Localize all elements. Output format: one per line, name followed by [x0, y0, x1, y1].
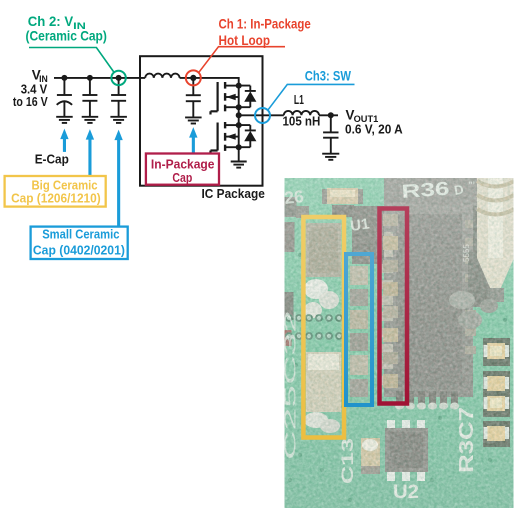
photo dark region behind U1	[352, 206, 384, 264]
photo scattered via dots	[288, 253, 507, 502]
label VIN	[13, 68, 48, 110]
svg-text:Hot Loop: Hot Loop	[219, 33, 271, 48]
photo via pad rows	[286, 315, 342, 339]
arrow to C3 (small ceramic pointer)	[114, 130, 122, 227]
ground of C2	[82, 117, 99, 123]
photo U2 chip	[385, 420, 428, 481]
photo big cap 2 (inside yellow)	[306, 352, 341, 412]
highlight rect dark red (in-package caps on PCB)	[380, 209, 408, 404]
wire SW out of package to L1	[239, 114, 284, 116]
ground of C5	[322, 154, 339, 160]
ground of C1	[56, 117, 72, 123]
photo IC right pads	[465, 220, 476, 354]
Q1 body arrow	[226, 94, 236, 100]
svg-text:Ch3: SW: Ch3: SW	[305, 69, 351, 84]
svg-text:Cap (0402/0201): Cap (0402/0201)	[33, 242, 125, 257]
arrow to C1 (E-Cap pointer)	[60, 129, 68, 152]
photo silkscreen texts	[283, 179, 479, 503]
node at C3 (Ch2 probe point)	[116, 75, 122, 81]
node VIN at C1	[61, 75, 67, 81]
wire L1 to VOUT node	[319, 114, 338, 116]
photo left edge components	[285, 197, 297, 217]
photo big IC module top strip	[384, 178, 483, 208]
svg-text:Ch 1: In-Package: Ch 1: In-Package	[219, 17, 311, 32]
callout Ch2 VIN (green)	[26, 14, 126, 85]
inductor L1 (4 humps)	[284, 111, 319, 115]
photo grain texture	[285, 178, 514, 508]
photo small caps column (inside blue)	[350, 266, 368, 397]
svg-text:(Ceramic Cap): (Ceramic Cap)	[26, 29, 107, 44]
svg-text:Cap (1206/1210): Cap (1206/1210)	[11, 191, 101, 206]
node Q2 source	[236, 144, 242, 150]
svg-text:0.6 V, 20 A: 0.6 V, 20 A	[345, 121, 403, 136]
label VOUT1	[345, 108, 403, 137]
photo top tan capacitor	[322, 189, 328, 204]
photo big cap 1 (inside yellow)	[306, 223, 341, 277]
photo IC bottom pins	[395, 391, 459, 410]
capacitor C1 E-Cap (electrolytic)	[57, 78, 72, 117]
Q2 body arrow	[226, 133, 236, 139]
ground below Q2	[231, 162, 247, 168]
svg-text:105 nH: 105 nH	[283, 114, 321, 129]
node Q1 source	[236, 104, 242, 110]
diode D2 body diode of Q2	[239, 125, 257, 147]
svg-text:IC Package: IC Package	[202, 186, 265, 201]
photo right column pads	[483, 338, 510, 447]
node SW	[236, 112, 242, 118]
svg-text:Small Ceramic: Small Ceramic	[42, 227, 119, 242]
capacitor C3 small ceramic	[111, 78, 126, 117]
photo pads column (inside dark red)	[383, 214, 398, 388]
highlight rect blue (small ceramic on PCB)	[346, 254, 372, 405]
photo probe body (cream cylinder)	[477, 178, 514, 302]
annotation box Small Ceramic Cap (blue)	[31, 227, 128, 259]
photo small tan cap near C13	[361, 438, 380, 468]
capacitor C4 in-package	[186, 78, 201, 118]
photo dark area under probe	[468, 252, 492, 307]
svg-text:Cap: Cap	[172, 170, 192, 185]
photo solder blobs under probe	[449, 291, 475, 309]
svg-text:Ch 2: V: Ch 2: V	[28, 14, 73, 29]
wire main input rail VIN	[54, 77, 145, 79]
node Q1 drain	[236, 83, 242, 89]
transistor Q1 high-side NMOS	[211, 82, 239, 115]
svg-text:L1: L1	[294, 92, 304, 107]
diode D1 body diode of Q1	[239, 86, 257, 108]
annotation box Big Ceramic Cap (yellow)	[5, 176, 106, 207]
IC package box outline	[140, 56, 263, 186]
photo solder blobs	[304, 279, 328, 299]
svg-text:to 16 V: to 16 V	[13, 94, 48, 109]
ground of C4	[185, 117, 202, 123]
capacitor C5 output	[323, 115, 338, 153]
transistor Q2 low-side NMOS	[211, 122, 239, 154]
ground of C3	[110, 117, 127, 123]
arrow to C2 (big ceramic pointer)	[86, 129, 94, 176]
node VOUT1	[328, 112, 334, 118]
highlight rect yellow (big ceramic on PCB)	[303, 217, 344, 438]
wire Q2 source to ground	[238, 147, 240, 161]
annotation box In-Package Cap (crimson)	[146, 154, 219, 185]
inductor in-package (4 humps)	[145, 74, 179, 78]
wire switch-node column	[238, 86, 240, 148]
photo IC left pads	[381, 216, 393, 385]
arrow to C4 (in-package cap pointer)	[189, 127, 197, 153]
node hot loop (Ch1 probe point)	[190, 75, 196, 81]
capacitor C2 big ceramic	[82, 78, 97, 117]
node at C2	[87, 75, 93, 81]
callout Ch3 SW (blue)	[255, 69, 355, 124]
photo top fade overlay	[285, 178, 514, 320]
photo background PCB	[285, 178, 514, 508]
callout Ch1 hot loop (red)	[186, 17, 311, 86]
svg-text:E-Cap: E-Cap	[35, 152, 69, 167]
node Q2 drain	[236, 122, 242, 128]
photo big IC module body	[384, 204, 473, 397]
wire from inductor to Q1 drain corner	[180, 78, 239, 86]
